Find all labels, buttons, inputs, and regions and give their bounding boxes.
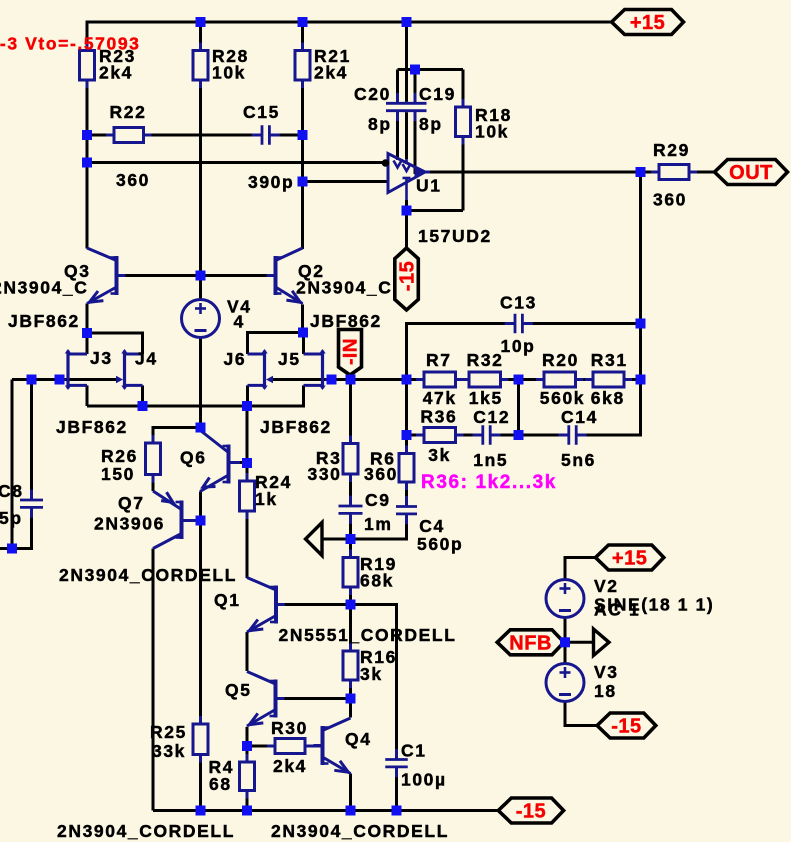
svg-text:1n5: 1n5 — [473, 450, 508, 470]
svg-text:C1: C1 — [401, 741, 427, 761]
svg-text:C9: C9 — [365, 490, 391, 510]
svg-text:+15: +15 — [612, 548, 647, 570]
svg-text:R7: R7 — [426, 350, 452, 370]
svg-text:5p: 5p — [0, 508, 23, 528]
svg-text:560k: 560k — [540, 388, 585, 408]
svg-text:V2: V2 — [594, 576, 619, 596]
svg-text:R36: 1k2...3k: R36: 1k2...3k — [421, 472, 557, 493]
svg-text:-15: -15 — [397, 261, 419, 291]
svg-text:C8: C8 — [0, 481, 24, 501]
svg-text:-3 Vto=-.57093: -3 Vto=-.57093 — [0, 34, 141, 54]
svg-text:Q6: Q6 — [180, 448, 207, 468]
svg-text:R25: R25 — [150, 722, 187, 742]
svg-text:Q1: Q1 — [214, 590, 241, 610]
svg-text:C14: C14 — [561, 407, 598, 427]
svg-text:1m: 1m — [364, 514, 393, 534]
svg-text:Q4: Q4 — [345, 729, 372, 749]
svg-text:360: 360 — [364, 464, 398, 484]
svg-text:68: 68 — [209, 774, 232, 794]
svg-text:R22: R22 — [110, 102, 147, 122]
svg-text:JBF862: JBF862 — [56, 417, 128, 437]
svg-text:2N3904_C: 2N3904_C — [0, 278, 88, 298]
svg-text:NFB: NFB — [509, 632, 552, 654]
svg-text:J3: J3 — [90, 348, 113, 368]
svg-text:360: 360 — [116, 170, 150, 190]
svg-text:Q7: Q7 — [118, 493, 145, 513]
svg-text:2N3904_CORDELL: 2N3904_CORDELL — [57, 821, 235, 841]
svg-text:-15: -15 — [611, 716, 641, 738]
svg-text:360: 360 — [653, 190, 687, 210]
svg-text:R30: R30 — [271, 718, 308, 738]
svg-text:JBF862: JBF862 — [260, 417, 332, 437]
svg-text:330: 330 — [308, 464, 342, 484]
svg-text:2N5551_CORDELL: 2N5551_CORDELL — [279, 625, 457, 645]
svg-text:157UD2: 157UD2 — [418, 226, 492, 246]
svg-text:R20: R20 — [542, 350, 579, 370]
svg-text:J5: J5 — [278, 349, 301, 369]
svg-text:+15: +15 — [630, 12, 665, 34]
svg-text:18: 18 — [594, 681, 617, 701]
svg-text:2k4: 2k4 — [99, 63, 133, 83]
svg-text:390p: 390p — [248, 172, 294, 192]
svg-text:47k: 47k — [423, 388, 457, 408]
svg-text:8p: 8p — [368, 114, 392, 134]
svg-text:R31: R31 — [591, 350, 628, 370]
svg-text:AC 1: AC 1 — [594, 600, 640, 620]
svg-text:C20: C20 — [354, 84, 391, 104]
svg-text:3k: 3k — [428, 445, 451, 465]
svg-text:R32: R32 — [467, 350, 504, 370]
svg-text:2k4: 2k4 — [314, 63, 348, 83]
svg-text:J4: J4 — [135, 349, 158, 369]
svg-text:Q5: Q5 — [225, 680, 252, 700]
svg-text:R26: R26 — [101, 446, 138, 466]
svg-text:V3: V3 — [594, 662, 619, 682]
svg-text:33k: 33k — [152, 741, 186, 761]
svg-text:R36: R36 — [420, 407, 457, 427]
svg-text:5n6: 5n6 — [561, 450, 596, 470]
svg-text:4: 4 — [234, 312, 245, 332]
svg-text:100µ: 100µ — [401, 770, 447, 790]
svg-text:C4: C4 — [419, 516, 445, 536]
svg-text:6k8: 6k8 — [591, 388, 625, 408]
svg-text:8p: 8p — [419, 114, 443, 134]
svg-text:C15: C15 — [243, 102, 280, 122]
svg-text:2N3906: 2N3906 — [94, 514, 165, 534]
svg-text:JBF862: JBF862 — [310, 311, 382, 331]
svg-text:150: 150 — [101, 464, 135, 484]
svg-text:2N3904_CORDELL: 2N3904_CORDELL — [59, 565, 237, 585]
svg-text:U1: U1 — [416, 176, 442, 196]
svg-text:-IN: -IN — [341, 338, 362, 365]
svg-text:560p: 560p — [417, 534, 463, 554]
svg-text:R29: R29 — [653, 140, 690, 160]
svg-text:68k: 68k — [360, 571, 394, 591]
svg-text:JBF862: JBF862 — [8, 311, 80, 331]
svg-text:1k5: 1k5 — [469, 388, 503, 408]
svg-text:1k: 1k — [255, 489, 278, 509]
svg-text:10k: 10k — [212, 63, 246, 83]
svg-text:10k: 10k — [475, 122, 509, 142]
svg-text:-15: -15 — [516, 801, 546, 823]
svg-text:OUT: OUT — [729, 162, 773, 184]
svg-text:2k4: 2k4 — [273, 756, 307, 776]
svg-text:2N3904_C: 2N3904_C — [296, 278, 392, 298]
svg-text:3k: 3k — [360, 664, 383, 684]
svg-text:C13: C13 — [500, 293, 537, 313]
svg-text:C19: C19 — [419, 84, 456, 104]
svg-text:J6: J6 — [224, 349, 247, 369]
svg-text:10p: 10p — [501, 336, 536, 356]
svg-text:2N3904_CORDELL: 2N3904_CORDELL — [271, 821, 449, 841]
svg-text:C12: C12 — [473, 407, 510, 427]
